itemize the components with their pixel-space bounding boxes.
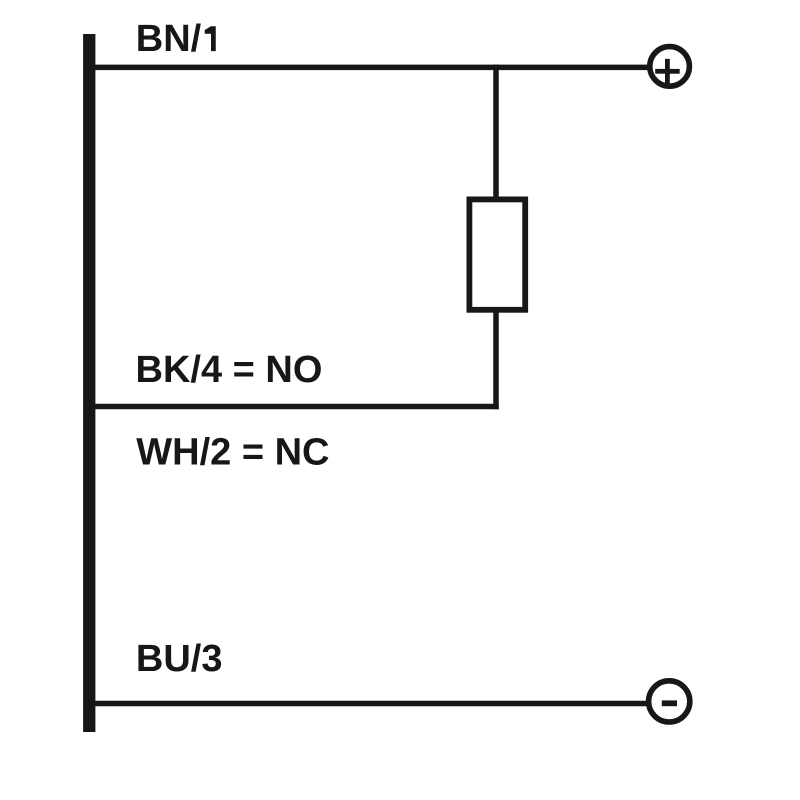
svg-text:BU/3: BU/3 bbox=[136, 638, 223, 680]
svg-text:WH/2 = NC: WH/2 = NC bbox=[136, 432, 329, 474]
svg-text:BK/4 = NO: BK/4 = NO bbox=[136, 349, 323, 391]
svg-text:BN/: BN/ bbox=[136, 18, 202, 60]
